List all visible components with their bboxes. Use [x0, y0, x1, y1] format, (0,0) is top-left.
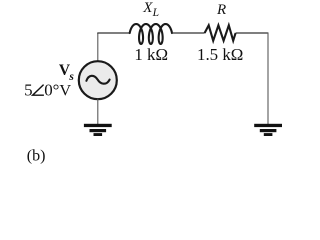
wire between inductor and resistor [172, 32, 205, 34]
sine wave inside source [86, 76, 109, 84]
wire right vertical down to ground [267, 32, 269, 124]
svg-text:R: R [216, 2, 226, 18]
wire resistor to right corner [236, 32, 268, 34]
svg-text:X: X [142, 0, 153, 16]
svg-text:5: 5 [24, 80, 32, 99]
source Vs circle [79, 61, 117, 99]
svg-text:V: V [59, 81, 71, 99]
svg-text:0°: 0° [44, 80, 59, 99]
resistor R zigzag [205, 25, 236, 40]
wire source bottom to ground [97, 99, 99, 124]
svg-text:L: L [152, 7, 159, 19]
svg-text:1 kΩ: 1 kΩ [134, 45, 168, 64]
inductor XL coil [130, 24, 172, 44]
svg-text:(b): (b) [27, 147, 46, 164]
ground left [84, 124, 112, 136]
wire top rail left segment [97, 32, 130, 34]
ground right [254, 124, 282, 136]
svg-text:1.5 kΩ: 1.5 kΩ [197, 45, 243, 64]
wire top-left vertical (source top to rail) [97, 33, 99, 62]
